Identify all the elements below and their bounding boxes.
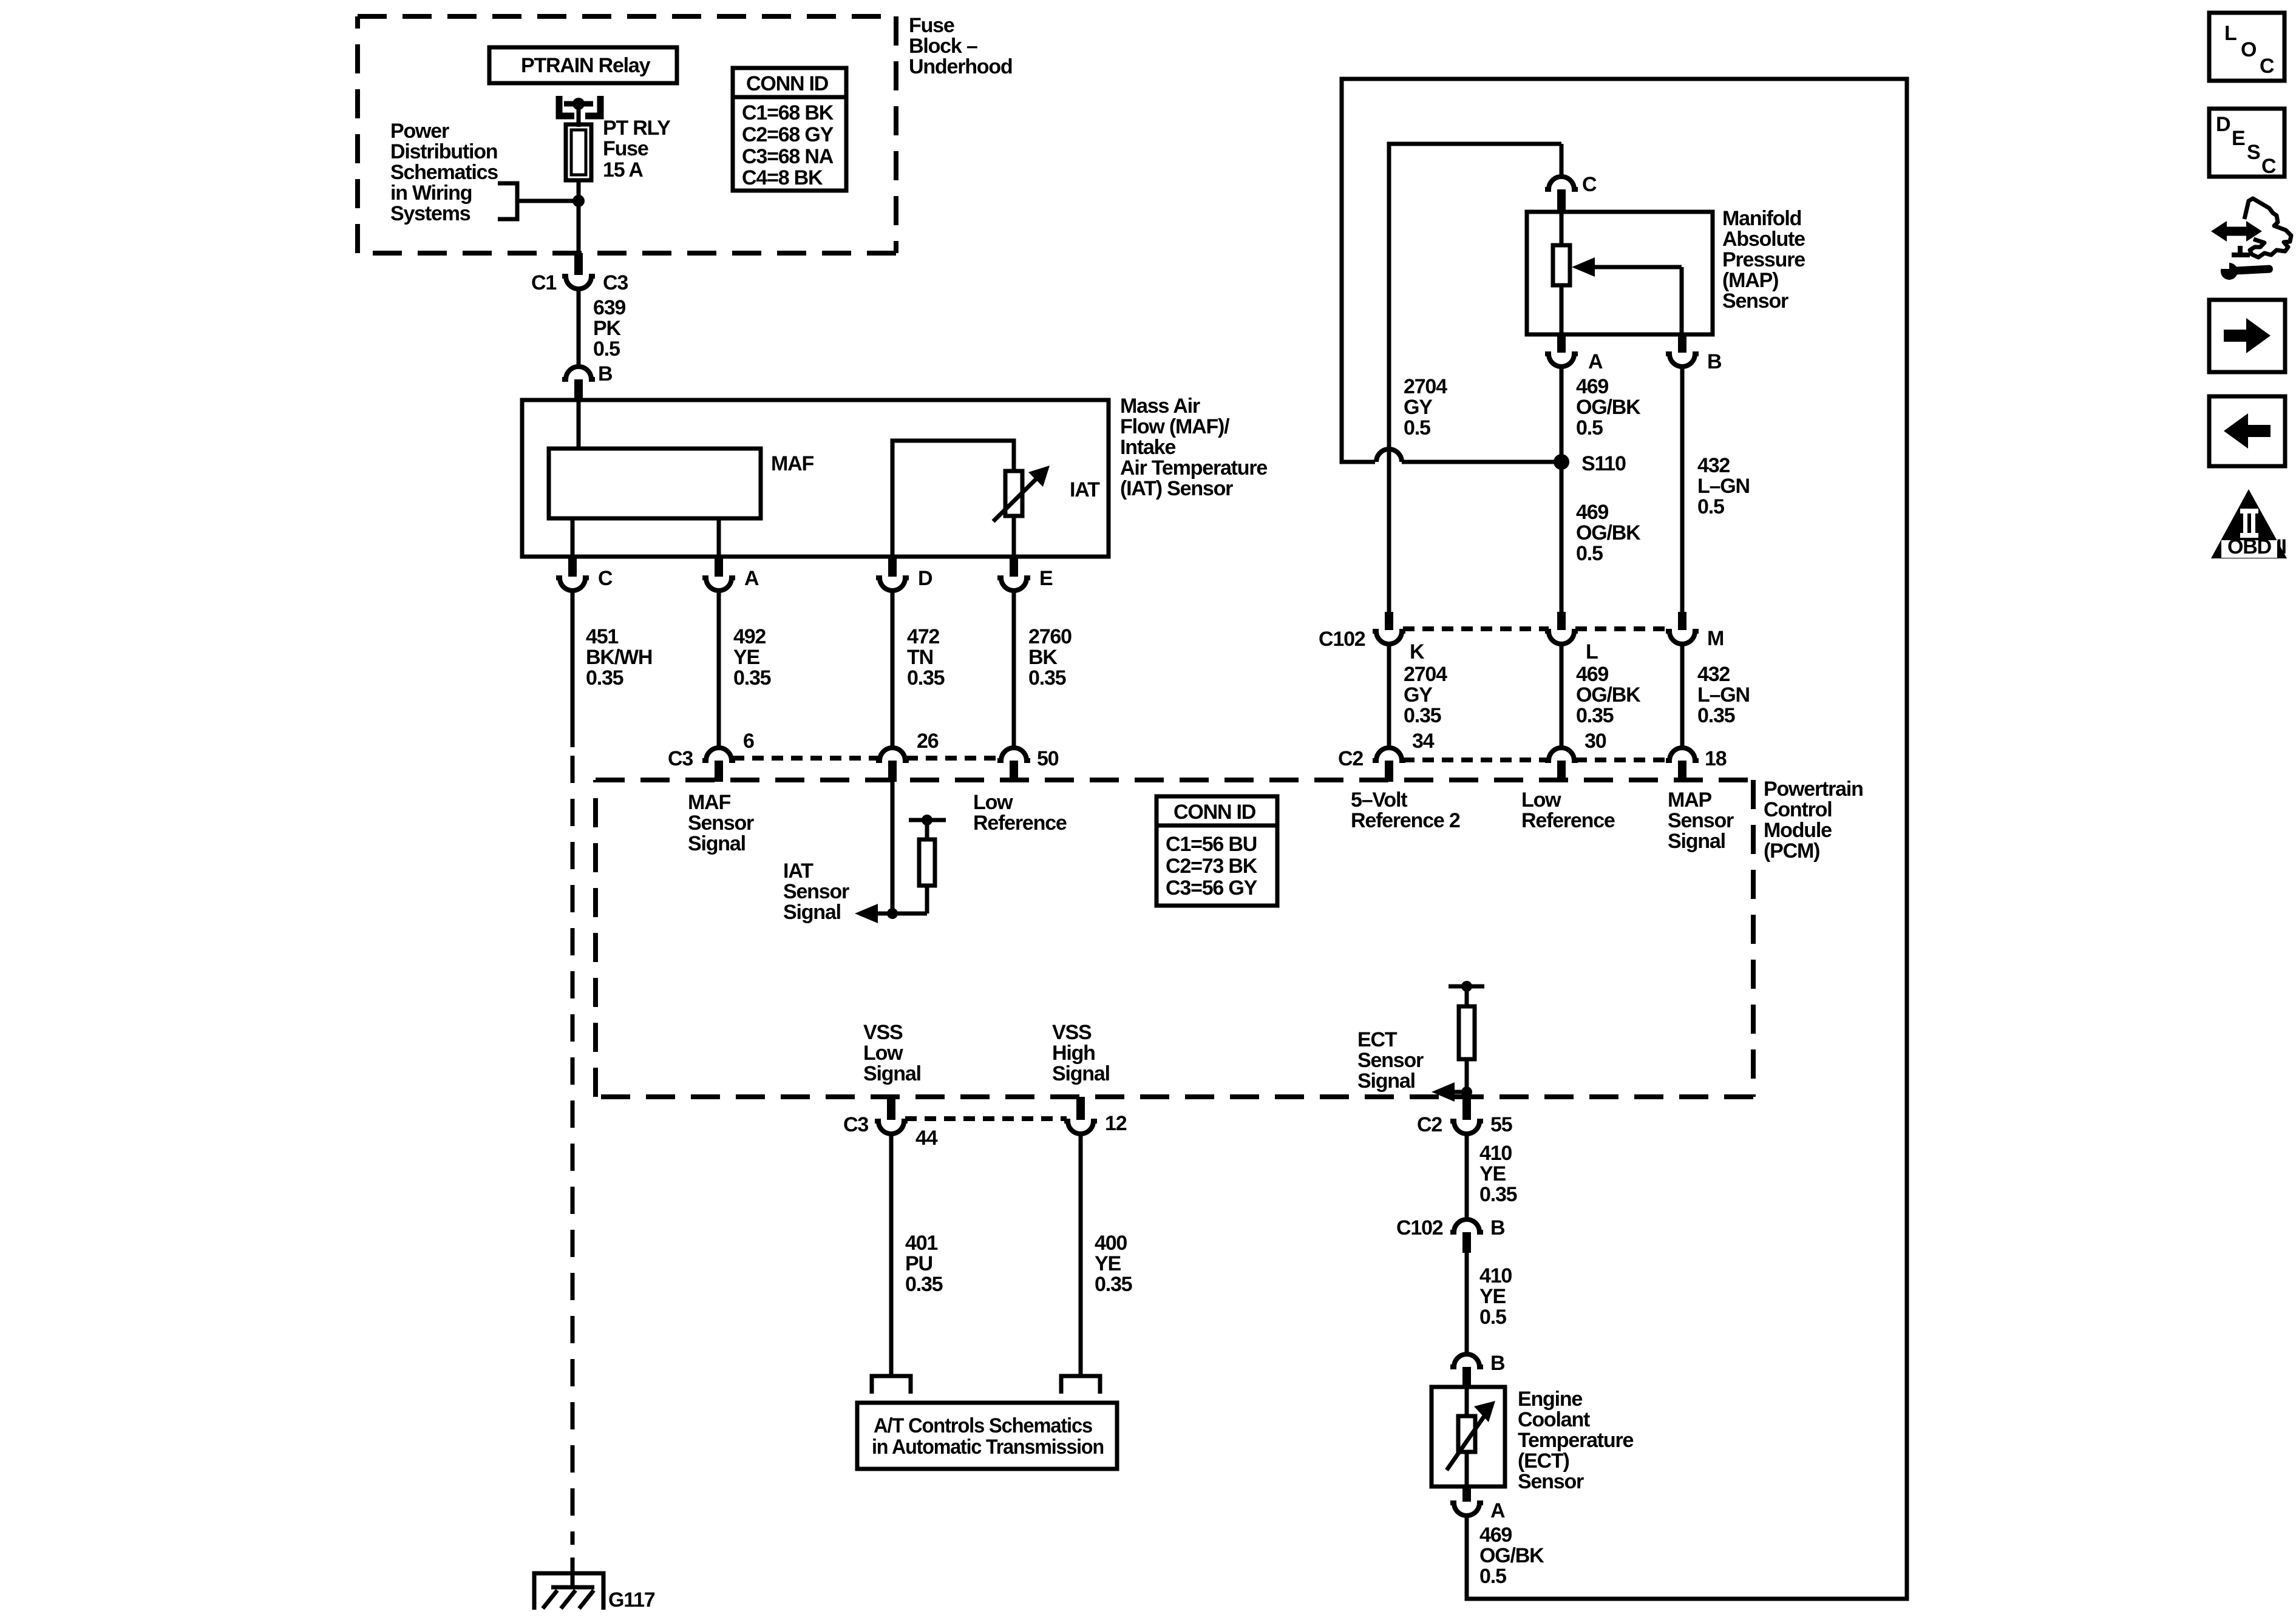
svg-text:451: 451 (586, 625, 618, 648)
connector C1/C3 stub (574, 253, 583, 275)
svg-text:12: 12 (1105, 1112, 1127, 1135)
svg-text:E: E (2232, 127, 2245, 150)
svg-text:Coolant: Coolant (1518, 1408, 1590, 1431)
svg-text:MAF: MAF (771, 452, 813, 475)
svg-text:L–GN: L–GN (1697, 683, 1750, 707)
MAF pin D connector arc (876, 578, 909, 591)
PCM pin 50 connector arc (997, 748, 1030, 761)
C102 pin M stub (1678, 612, 1686, 630)
C2 connector row short dashes (1403, 758, 1670, 762)
svg-text:C102: C102 (1319, 628, 1365, 651)
svg-text:Temperature: Temperature (1518, 1429, 1634, 1452)
svg-text:YE: YE (1479, 1162, 1506, 1185)
svg-text:Air Temperature: Air Temperature (1120, 456, 1267, 480)
label Powertrain Control Module (PCM) (1764, 778, 1863, 863)
wire 410 YE 0.35 (1465, 1134, 1469, 1219)
relay socket clips (559, 96, 600, 116)
MAF pin C stub (568, 557, 577, 577)
ECT sensor label (1518, 1388, 1634, 1493)
wire 451 dashed continuation to ground (571, 756, 575, 1545)
svg-text:0.35: 0.35 (1576, 704, 1614, 727)
svg-text:C1=56 BU: C1=56 BU (1166, 833, 1257, 856)
svg-text:G117: G117 (608, 1588, 655, 1612)
svg-text:A: A (744, 567, 759, 590)
svg-text:Pressure: Pressure (1722, 248, 1805, 271)
svg-text:Powertrain: Powertrain (1764, 778, 1863, 801)
wire label 639 PK 0.5 (593, 296, 625, 361)
svg-text:0.5: 0.5 (1697, 495, 1724, 518)
fuse label "PT RLY Fuse 15 A" (603, 117, 671, 181)
label VSS Low Signal (863, 1021, 921, 1085)
svg-text:C2: C2 (1417, 1113, 1442, 1136)
svg-text:Signal: Signal (1668, 830, 1725, 853)
svg-text:0.35: 0.35 (1404, 704, 1441, 727)
wire B into MAF element (577, 400, 581, 450)
label Low Reference (pin 50) (973, 791, 1067, 835)
svg-text:S: S (2247, 141, 2260, 164)
PCM pin 55 connector arc (1450, 1121, 1483, 1134)
svg-text:469: 469 (1576, 663, 1608, 686)
VSS pin 12 stub (1076, 1097, 1085, 1120)
PCM pin 30 stub (1557, 761, 1566, 782)
svg-text:MAF: MAF (688, 791, 730, 814)
svg-text:D: D (918, 567, 932, 590)
svg-text:44: 44 (915, 1127, 938, 1150)
IAT sensor wiring inside box (892, 441, 1014, 557)
VSS pin 12 connector arc (1064, 1121, 1097, 1134)
MAF/IAT sensor outer box (522, 400, 1109, 557)
svg-text:Sensor: Sensor (1668, 809, 1734, 832)
MAP potentiometer bottom leg (1560, 285, 1564, 334)
svg-text:Signal: Signal (1357, 1070, 1415, 1093)
svg-text:C3=68 NA: C3=68 NA (742, 145, 834, 168)
svg-text:Power: Power (390, 120, 449, 143)
VSS low terminal fork (872, 1376, 911, 1394)
svg-text:Sensor: Sensor (1357, 1049, 1424, 1072)
svg-text:26: 26 (917, 730, 939, 753)
C102 pin L connector arc (1545, 631, 1578, 644)
svg-text:Distribution: Distribution (390, 140, 497, 163)
sidebar DESC icon (2209, 109, 2284, 178)
wire bracket to junction (517, 199, 579, 203)
svg-text:M: M (1707, 627, 1724, 650)
IAT pullup resistor leg bottom (925, 886, 929, 914)
ECT sensor box (1432, 1387, 1505, 1486)
wire label 451 BK/WH 0.35 (586, 625, 652, 690)
svg-text:High: High (1052, 1042, 1095, 1065)
svg-text:O: O (2241, 38, 2257, 61)
MAF pin E connector arc (997, 578, 1030, 591)
MAF/IAT sensor label (1120, 395, 1267, 500)
svg-text:0.35: 0.35 (733, 666, 771, 690)
svg-text:6: 6 (743, 730, 754, 753)
IAT signal junction dot (887, 908, 898, 919)
connector B stub into MAF box (574, 379, 583, 402)
MAF pin D stub (888, 557, 897, 577)
ECT pullup resistor top leg (1465, 986, 1469, 1006)
MAP pin B connector arc (1666, 354, 1699, 367)
svg-text:C: C (2261, 155, 2276, 178)
wire label 469 OG/BK 0.5 (upper) (1576, 375, 1641, 439)
svg-text:Fuse: Fuse (603, 137, 648, 160)
svg-text:in Wiring: in Wiring (390, 181, 472, 205)
sidebar forward arrow icon (2209, 300, 2285, 372)
MAP pin A stub (1557, 334, 1566, 353)
svg-text:B: B (1707, 350, 1722, 373)
MAP sensor box (1527, 212, 1713, 334)
svg-text:C4=8 BK: C4=8 BK (742, 166, 823, 189)
wire 469 OG/BK MAP A to S110 to C102 L (1560, 367, 1564, 612)
svg-text:Signal: Signal (1052, 1062, 1110, 1085)
wire 492 YE (717, 591, 721, 748)
svg-text:Signal: Signal (863, 1062, 921, 1085)
svg-text:Flow (MAF)/: Flow (MAF)/ (1120, 415, 1230, 438)
svg-text:5–Volt: 5–Volt (1351, 788, 1407, 812)
MAP pin A connector arc (1545, 354, 1578, 367)
svg-text:492: 492 (733, 625, 766, 648)
ECT pin B connector arc (1450, 1354, 1483, 1367)
svg-text:Reference 2: Reference 2 (1351, 809, 1460, 832)
svg-text:OG/BK: OG/BK (1576, 521, 1641, 544)
svg-text:Systems: Systems (390, 202, 470, 225)
wire 410 YE 0.5 (1465, 1253, 1469, 1354)
PCM pin 26 connector arc (876, 748, 909, 761)
svg-text:YE: YE (733, 646, 759, 669)
svg-text:PTRAIN Relay: PTRAIN Relay (521, 54, 651, 77)
IAT variable arrow (993, 466, 1050, 521)
svg-text:C: C (1582, 173, 1597, 196)
ECT signal arrow (1432, 1082, 1467, 1102)
svg-text:C1: C1 (531, 271, 556, 294)
wire 401 PU (889, 1134, 894, 1376)
connector B arc (562, 367, 595, 379)
MAF pin A stub (715, 557, 723, 577)
IAT pullup supply dot (922, 815, 932, 825)
label MAF Sensor Signal (688, 791, 754, 855)
svg-text:L: L (1586, 640, 1598, 663)
wire 432 L-GN 0.35 (1680, 644, 1685, 748)
svg-text:639: 639 (593, 296, 625, 319)
svg-text:C102: C102 (1396, 1216, 1443, 1239)
wire label 401 PU 0.35 (905, 1232, 943, 1296)
svg-text:(PCM): (PCM) (1764, 839, 1819, 863)
svg-text:ECT: ECT (1357, 1028, 1398, 1051)
svg-text:0.35: 0.35 (907, 666, 945, 690)
ground G117 symbol (534, 1573, 603, 1610)
wire fuse to junction to fuse block edge (577, 180, 581, 253)
label IAT Sensor Signal (783, 859, 849, 924)
fuse PT RLY 15A (double rectangle) (566, 124, 591, 180)
sidebar back arrow icon (2209, 396, 2285, 466)
svg-text:55: 55 (1490, 1113, 1512, 1136)
splice S110 dot (1554, 454, 1569, 470)
svg-text:472: 472 (907, 625, 939, 648)
svg-text:L: L (2224, 22, 2237, 45)
svg-text:C1=68 BK: C1=68 BK (742, 101, 834, 124)
fuse block underhood dashed boundary (358, 16, 896, 253)
connector C1/C3 arc (562, 276, 595, 289)
svg-text:Intake: Intake (1120, 436, 1175, 459)
svg-text:410: 410 (1479, 1142, 1512, 1165)
svg-text:MAP: MAP (1668, 788, 1711, 812)
VSS high terminal fork (1061, 1376, 1100, 1394)
ECT pullup resistor bottom leg (1465, 1059, 1469, 1097)
svg-text:0.35: 0.35 (1028, 666, 1066, 690)
svg-text:Low: Low (863, 1042, 903, 1065)
CONN ID table (fuse block) (733, 68, 846, 191)
svg-text:Manifold: Manifold (1722, 207, 1801, 230)
svg-text:in Automatic Transmission: in Automatic Transmission (872, 1436, 1104, 1459)
wire label 410 YE 0.5 (1479, 1264, 1512, 1329)
svg-text:PU: PU (905, 1252, 932, 1275)
sidebar LOC icon (2209, 13, 2284, 81)
wire label 400 YE 0.35 (1095, 1232, 1132, 1296)
ECT pullup supply bar (1449, 985, 1484, 989)
ECT thermistor arrow (1447, 1401, 1495, 1470)
PCM pin 6 stub (715, 761, 723, 782)
wire 400 YE (1079, 1134, 1083, 1376)
sidebar repair icon hand outline (2244, 198, 2291, 257)
C102 pin K connector arc (1373, 631, 1405, 644)
PCM pin 50 stub (1010, 761, 1018, 782)
wire 469 OG/BK 0.35 (1560, 644, 1564, 748)
label MAP Sensor Signal (1668, 788, 1734, 853)
PCM pin 34 connector arc (1373, 748, 1405, 761)
fuse block label "Fuse Block - Underhood" (909, 14, 1013, 78)
label Low Reference (pin 30) (1521, 788, 1615, 832)
svg-text:18: 18 (1705, 747, 1727, 770)
MAF pin C connector arc (556, 578, 589, 591)
svg-text:VSS: VSS (1052, 1021, 1092, 1044)
svg-text:A: A (1490, 1499, 1505, 1522)
wire MAP pin C vertical (1560, 144, 1564, 177)
svg-text:2704: 2704 (1404, 375, 1447, 398)
wire hop over 2704 GY (1376, 449, 1402, 462)
wire label 472 TN 0.35 (907, 625, 945, 690)
svg-text:410: 410 (1479, 1264, 1512, 1287)
wire 639 PK 0.5 (577, 289, 581, 367)
C102 pin B stub (1462, 1232, 1471, 1253)
wire 2760 BK (1012, 591, 1016, 748)
svg-text:Sensor: Sensor (688, 812, 754, 835)
svg-text:D: D (2216, 113, 2230, 136)
svg-text:469: 469 (1576, 375, 1608, 398)
MAP potentiometer body (1553, 245, 1570, 285)
MAP pin C connector arc (1545, 177, 1578, 189)
ECT pin A connector arc (1450, 1503, 1483, 1516)
sidebar OBD II triangle icon (2211, 489, 2287, 558)
PCM pin 30 connector arc (1545, 748, 1578, 761)
ECT pullup resistor body (1459, 1006, 1475, 1059)
svg-text:30: 30 (1584, 730, 1606, 753)
MAP potentiometer top leg (1560, 212, 1564, 245)
MAP pin B stub (1678, 334, 1686, 353)
svg-text:Signal: Signal (688, 832, 746, 855)
svg-text:S110: S110 (1581, 452, 1626, 475)
wire 2704 GY top run (MAP C to C102 K) (1389, 144, 1561, 612)
svg-text:C2=73 BK: C2=73 BK (1166, 855, 1258, 878)
svg-text:0.35: 0.35 (1479, 1183, 1517, 1206)
svg-text:469: 469 (1576, 501, 1608, 524)
svg-text:0.35: 0.35 (586, 666, 623, 690)
wire 472 TN (891, 591, 895, 748)
svg-text:432: 432 (1697, 454, 1730, 477)
svg-text:A/T Controls Schematics: A/T Controls Schematics (874, 1414, 1092, 1437)
C102 pin K stub (1385, 612, 1393, 630)
svg-text:15 A: 15 A (603, 158, 643, 181)
svg-text:Block –: Block – (909, 35, 977, 58)
PCM pin 6 connector arc (702, 748, 735, 761)
wire S110 line right segment (1402, 460, 1561, 464)
MAF element box (549, 449, 761, 518)
C102 pin M connector arc (1666, 631, 1699, 644)
wire 451 BK/WH solid part (571, 591, 575, 747)
svg-text:Fuse: Fuse (909, 14, 954, 37)
wire 469 OG/BK big routing loop (S110 to ECT low ref) (1342, 79, 1907, 1599)
svg-text:K: K (1410, 640, 1425, 663)
svg-text:IAT: IAT (783, 859, 813, 883)
MAF pin A connector arc (702, 578, 735, 591)
svg-text:TN: TN (907, 646, 933, 669)
svg-text:34: 34 (1412, 730, 1435, 753)
sidebar repair icon double arrow (2211, 221, 2262, 242)
svg-text:YE: YE (1095, 1252, 1121, 1275)
junction dot below fuse (572, 195, 585, 207)
MAF element legs (571, 518, 575, 557)
svg-text:0.5: 0.5 (593, 337, 620, 361)
IAT pullup resistor leg top (925, 820, 929, 839)
PCM pin 34 stub (1385, 761, 1393, 782)
svg-text:OBD II: OBD II (2227, 535, 2286, 558)
ECT pin B stub (1462, 1367, 1471, 1389)
VSS pin 44 connector arc (875, 1121, 908, 1134)
svg-text:BK/WH: BK/WH (586, 646, 652, 669)
svg-text:C3: C3 (603, 271, 628, 294)
wire label 469 OG/BK 0.5 (ECT low) (1479, 1524, 1544, 1588)
svg-text:0.35: 0.35 (1697, 704, 1735, 727)
svg-text:CONN ID: CONN ID (746, 72, 829, 95)
svg-text:OG/BK: OG/BK (1576, 396, 1641, 419)
svg-text:(MAP): (MAP) (1722, 269, 1778, 292)
IAT thermistor leg (1012, 516, 1016, 557)
power distribution label (390, 120, 498, 225)
svg-text:2760: 2760 (1028, 625, 1072, 648)
IAT pullup supply bar (909, 818, 946, 822)
svg-text:L–GN: L–GN (1697, 475, 1750, 498)
MAP sensor label (1722, 207, 1805, 313)
svg-text:A: A (1588, 350, 1603, 373)
svg-text:0.5: 0.5 (1404, 416, 1430, 439)
wire label 2760 BK 0.35 (1028, 625, 1072, 690)
svg-text:Sensor: Sensor (1722, 290, 1788, 313)
svg-text:(IAT) Sensor: (IAT) Sensor (1120, 477, 1233, 500)
svg-text:PT RLY: PT RLY (603, 117, 671, 140)
wire label 469 OG/BK 0.35 (1576, 663, 1641, 727)
svg-text:B: B (1490, 1216, 1505, 1239)
IAT signal horizontal wire with arrow (855, 904, 927, 923)
svg-text:0.35: 0.35 (905, 1273, 943, 1296)
ECT thermistor body (1458, 1416, 1475, 1452)
svg-text:E: E (1039, 567, 1053, 590)
wire label 492 YE 0.35 (733, 625, 771, 690)
svg-text:Schematics: Schematics (390, 161, 498, 184)
svg-text:YE: YE (1479, 1285, 1506, 1308)
wire label 410 YE 0.35 (1479, 1142, 1517, 1206)
svg-text:Sensor: Sensor (1518, 1470, 1584, 1493)
svg-text:C3: C3 (843, 1113, 868, 1136)
ECT pullup supply dot (1461, 981, 1472, 992)
svg-text:0.5: 0.5 (1576, 542, 1603, 565)
svg-text:C3: C3 (668, 747, 693, 770)
wire label 432 L-GN 0.35 (1697, 663, 1750, 727)
svg-text:400: 400 (1095, 1232, 1127, 1255)
svg-text:PK: PK (593, 317, 621, 340)
wire label 469 OG/BK 0.5 (below S110) (1576, 501, 1641, 565)
svg-text:Reference: Reference (1521, 809, 1615, 832)
PCM pin 55 stub (1462, 1097, 1471, 1120)
CONN ID table (PCM) (1156, 796, 1277, 906)
VSS pin 44 stub (887, 1097, 895, 1120)
C102 connector row short dashes (1403, 626, 1670, 631)
sidebar repair icon wrench (2221, 261, 2273, 280)
svg-text:2704: 2704 (1404, 663, 1447, 686)
ECT thermistor bottom leg (1465, 1452, 1469, 1486)
svg-text:Mass Air: Mass Air (1120, 395, 1200, 418)
C102 pin B connector arc (1450, 1219, 1483, 1232)
svg-text:GY: GY (1404, 396, 1433, 419)
ECT thermistor top leg (1465, 1387, 1469, 1416)
svg-text:401: 401 (905, 1232, 937, 1255)
label 5-Volt Reference 2 (1351, 788, 1460, 832)
svg-text:0.35: 0.35 (1095, 1273, 1132, 1296)
svg-text:0.5: 0.5 (1576, 416, 1603, 439)
svg-text:C: C (2260, 55, 2274, 78)
svg-text:Low: Low (973, 791, 1013, 814)
svg-text:Low: Low (1521, 788, 1561, 812)
A/T controls schematics box (857, 1403, 1117, 1469)
svg-text:Sensor: Sensor (783, 880, 849, 903)
PCM pin 26 stub (888, 761, 897, 782)
svg-text:0.5: 0.5 (1479, 1565, 1506, 1588)
svg-text:469: 469 (1479, 1524, 1512, 1547)
PCM connector row short dashes (C3 side) (733, 756, 1000, 761)
label ECT Sensor Signal (1357, 1028, 1424, 1093)
VSS connector short dashes (905, 1116, 1067, 1121)
svg-text:Engine: Engine (1518, 1388, 1582, 1411)
wire relay to fuse (577, 104, 581, 127)
svg-text:GY: GY (1404, 683, 1433, 707)
power distribution bracket (498, 183, 517, 219)
svg-text:B: B (598, 362, 613, 385)
IAT thermistor body (1005, 471, 1022, 516)
svg-text:VSS: VSS (863, 1021, 903, 1044)
IAT pullup resistor body (919, 839, 935, 886)
svg-text:OG/BK: OG/BK (1479, 1544, 1544, 1567)
MAP pin C stub (1557, 189, 1566, 214)
svg-text:IAT: IAT (1070, 478, 1100, 501)
wire label 432 L-GN 0.5 (1697, 454, 1750, 518)
MAP wiper arrow (1572, 257, 1682, 334)
wire label 2704 GY 0.5 (1404, 375, 1447, 439)
svg-text:Reference: Reference (973, 812, 1067, 835)
svg-text:432: 432 (1697, 663, 1730, 686)
svg-text:CONN ID: CONN ID (1173, 801, 1256, 824)
PCM pin 18 stub (1678, 761, 1686, 782)
svg-text:C2: C2 (1338, 747, 1363, 770)
MAF pin E stub (1010, 557, 1018, 577)
ground wire into G117 (571, 1558, 575, 1587)
wire 432 L-GN MAP B to C102 M (1680, 367, 1685, 612)
